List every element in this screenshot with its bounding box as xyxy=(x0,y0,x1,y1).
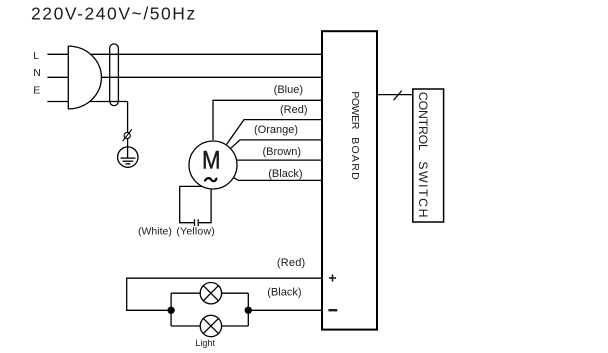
plug P1 xyxy=(68,46,101,109)
earth connector (circle with slash) xyxy=(124,132,130,138)
terminal - xyxy=(328,309,337,311)
wire E (earth terminal) xyxy=(47,101,127,103)
wire L (line terminal to power board) xyxy=(47,53,322,55)
junction node left xyxy=(167,307,174,314)
wire black negative (lamps to power board) xyxy=(248,309,322,311)
svg-text:(Yellow): (Yellow) xyxy=(176,225,215,237)
svg-text:POWER: POWER xyxy=(349,91,361,129)
svg-text:(Orange): (Orange) xyxy=(254,124,298,136)
svg-text:(Blue): (Blue) xyxy=(274,84,303,96)
svg-text:M: M xyxy=(202,147,221,174)
svg-text:(Black): (Black) xyxy=(267,287,301,299)
wire brown (motor to power board) xyxy=(237,159,322,161)
wire power board to control switch xyxy=(377,94,413,96)
ground (protective earth symbol) xyxy=(118,147,138,167)
connector slash xyxy=(394,91,402,101)
control switch S1 xyxy=(413,89,444,222)
wire black (motor to power board) xyxy=(233,177,322,180)
terminal + xyxy=(329,277,336,279)
motor M1 xyxy=(189,141,237,189)
svg-text:Light: Light xyxy=(195,338,215,348)
wire N (neutral terminal to power board) xyxy=(47,76,322,78)
svg-text:220V-240V~/50Hz: 220V-240V~/50Hz xyxy=(31,4,197,24)
svg-text:L: L xyxy=(33,50,39,62)
wire orange (motor to power board) xyxy=(231,140,322,148)
svg-text:BOARD: BOARD xyxy=(349,137,361,180)
svg-text:(Red): (Red) xyxy=(277,257,306,269)
power board U1 xyxy=(322,31,377,329)
capacitor C1 loop wires xyxy=(180,186,202,222)
svg-text:E: E xyxy=(33,85,40,97)
capacitor C1 plates xyxy=(194,219,196,226)
svg-text:(Black): (Black) xyxy=(268,168,302,180)
lamp L2 xyxy=(200,315,221,336)
lamp L1 xyxy=(200,283,221,304)
svg-text:N: N xyxy=(33,67,41,79)
wire red (motor to power board) xyxy=(227,120,322,145)
junction node right xyxy=(245,307,252,314)
svg-text:CONTROL: CONTROL xyxy=(416,92,430,151)
cord grommet xyxy=(110,44,119,106)
svg-text:(Red): (Red) xyxy=(280,104,308,116)
wire blue (motor to power board) xyxy=(213,100,322,140)
lamp loop wires xyxy=(170,293,172,326)
svg-text:(Brown): (Brown) xyxy=(262,146,301,158)
wire red positive (power board to lamps) xyxy=(127,278,322,310)
svg-text:(White): (White) xyxy=(138,225,172,237)
wire earth drop xyxy=(127,102,129,159)
